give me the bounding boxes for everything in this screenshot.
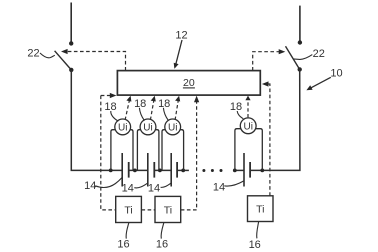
dashed signal arrow U2 to box 20	[150, 96, 155, 120]
svg-text:14: 14	[148, 183, 160, 195]
svg-text:Ti: Ti	[256, 204, 264, 216]
node: bus junction dot 1	[109, 169, 113, 173]
battery cell 14 (B1) plates	[122, 153, 129, 187]
battery bus wire segment before B4	[234, 169, 244, 171]
temperature sensor T2 (Ti box)	[155, 196, 181, 222]
svg-text:Ui: Ui	[168, 123, 177, 134]
battery cell 14 (B4) plates	[244, 153, 250, 187]
node: bus junction dot 3	[158, 169, 162, 173]
wire: voltage monitor U3 leads	[162, 130, 184, 171]
svg-text:14: 14	[213, 182, 225, 194]
svg-text:22: 22	[313, 48, 325, 60]
temperature sensor T4 (Ti box)	[248, 196, 274, 222]
battery cell 14 (B2) plates	[148, 153, 155, 187]
dashed signal arrow U4 to box 20	[245, 96, 250, 118]
leader line for label 22 right	[294, 55, 313, 60]
voltage monitor U3 (Ui circle)	[165, 119, 181, 135]
dashed signal arrow U3 to box 20	[175, 96, 180, 120]
wire: left main line lower segment with corner to battery bus	[71, 70, 122, 170]
battery bus wire segment B1-B2	[129, 169, 148, 171]
svg-text:Ti: Ti	[124, 204, 132, 216]
wire: voltage monitor U4 leads	[235, 129, 262, 171]
label 10 with arrow to right main line	[306, 68, 342, 91]
svg-text:18: 18	[230, 101, 242, 113]
svg-text:Ui: Ui	[243, 122, 252, 133]
dashed line from sensor T4 with arrow into box 20 right edge	[262, 81, 270, 195]
node: switch S1 upper contact dot	[69, 41, 73, 45]
svg-text:14: 14	[84, 180, 96, 192]
temperature sensor T1 (Ti box)	[116, 196, 142, 222]
node: switch S2 upper contact dot	[298, 40, 302, 44]
wire: right main line upper segment	[299, 6, 301, 43]
label 16 (T1) with leader	[117, 223, 129, 250]
switch S1 (22, left) blade	[55, 51, 72, 70]
node: switch S1 lower contact dot	[69, 68, 73, 72]
svg-text:Ui: Ui	[143, 123, 152, 134]
dashed control line from unit 20 to right switch	[253, 49, 286, 71]
voltage monitor U4 (Ui circle)	[240, 118, 256, 134]
voltage monitor U1 (Ui circle)	[115, 119, 131, 135]
battery cell 14 (B3) plates	[171, 153, 177, 187]
svg-text:Ui: Ui	[118, 123, 127, 134]
label 18 (U2) with leader	[134, 98, 146, 121]
svg-text:Ti: Ti	[164, 204, 172, 216]
svg-text:12: 12	[175, 30, 187, 42]
svg-text:18: 18	[134, 98, 146, 110]
label 14 (B2) with leader	[122, 183, 148, 195]
svg-text:20: 20	[183, 77, 195, 89]
dashed sensor bus between T1 and T2	[142, 209, 155, 211]
control unit box 20	[117, 71, 260, 96]
svg-text:22: 22	[27, 47, 39, 59]
label 22 (left switch)	[27, 47, 39, 59]
svg-text:16: 16	[117, 238, 129, 250]
node: bus junction dot 2	[133, 169, 137, 173]
label 12 with arrow to box 20	[174, 30, 188, 69]
voltage monitor U2 (Ui circle)	[140, 119, 156, 135]
battery bus wire segment B2-B3	[154, 169, 171, 171]
leader line for label 22 left	[40, 53, 55, 58]
node: bus junction dot 6	[260, 169, 264, 173]
label 18 (U3) with leader	[158, 98, 170, 121]
node: bus junction dot 5	[233, 169, 237, 173]
wire: voltage monitor U1 leads	[111, 130, 133, 171]
svg-text:16: 16	[249, 239, 261, 251]
node: switch S2 lower contact dot	[298, 67, 302, 71]
node: bus junction dot 4	[181, 169, 185, 173]
ellipsis dots (continuation of cells)	[202, 169, 222, 172]
label 16 (T4) with leader	[249, 222, 261, 251]
label 16 (T2) with leader	[156, 223, 168, 250]
dashed sensor bus (right) with arrow into box 20 bottom	[181, 96, 199, 210]
wire: left main line upper segment	[70, 3, 72, 44]
label 14 (B1) with leader	[84, 178, 122, 192]
label 18 (U1) with leader	[104, 101, 118, 121]
wire: voltage monitor U2 leads	[137, 130, 159, 171]
svg-text:14: 14	[122, 183, 134, 195]
dashed control line from unit 20 to left switch	[61, 49, 126, 71]
svg-text:18: 18	[158, 98, 170, 110]
label 14 (B4) with leader	[213, 181, 244, 194]
battery bus wire segment B3-end	[177, 169, 189, 171]
label 14 (B3) with leader	[148, 183, 171, 195]
label 22 (right switch)	[313, 48, 325, 60]
svg-text:16: 16	[156, 238, 168, 250]
switch S2 (22, right) blade	[286, 46, 300, 69]
svg-text:10: 10	[330, 68, 342, 80]
label 18 (U4) with leader	[230, 101, 243, 119]
dashed signal arrow U1 to box 20	[125, 96, 131, 120]
wire: right main line lower segment with corner to battery bus	[250, 69, 300, 170]
dashed sensor bus (left) with arrow into box 20 bottom-left	[101, 93, 117, 210]
